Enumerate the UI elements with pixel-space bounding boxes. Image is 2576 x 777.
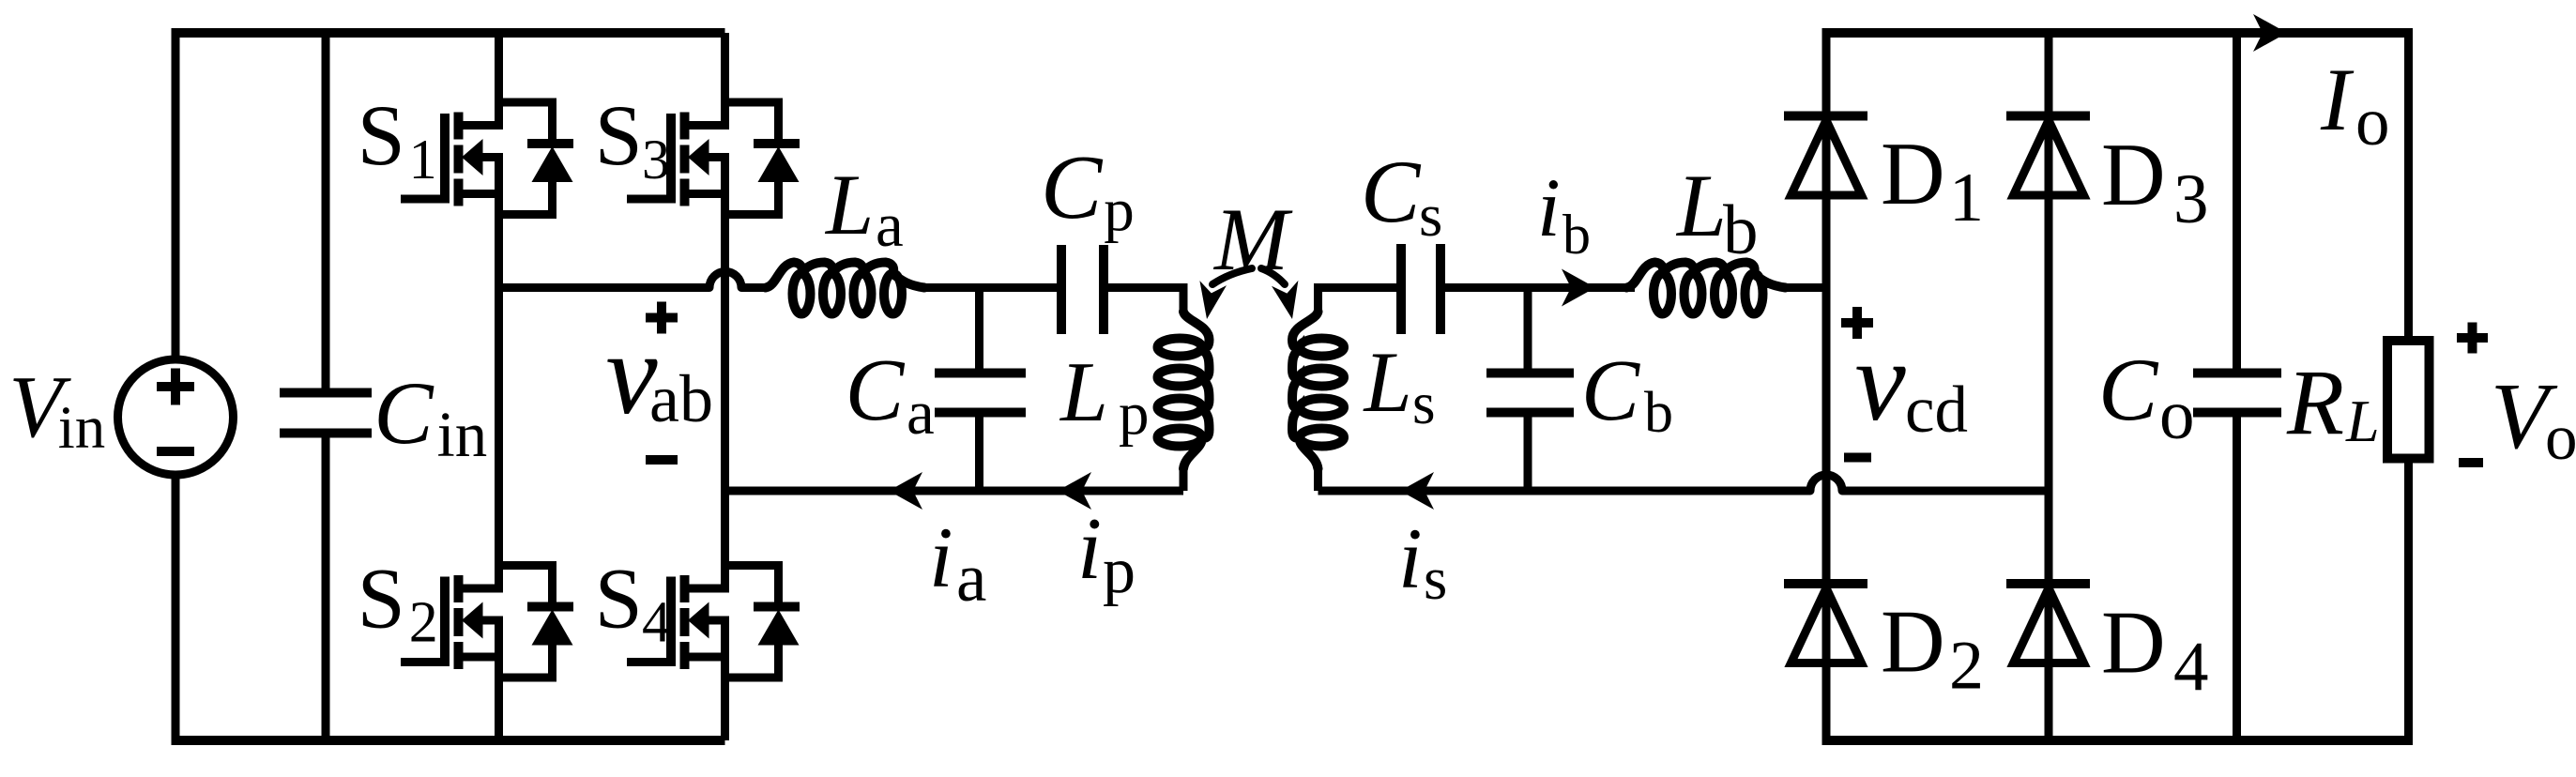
svg-text:D: D [1881, 592, 1945, 692]
svg-text:v: v [1855, 318, 1907, 445]
svg-text:C: C [1581, 343, 1640, 439]
svg-text:i: i [929, 510, 953, 605]
svg-text:C: C [1361, 142, 1422, 241]
svg-text:1: 1 [1949, 160, 1984, 236]
svg-text:a: a [907, 378, 935, 448]
svg-text:D: D [1881, 124, 1945, 223]
svg-text:cd: cd [1905, 373, 1968, 447]
svg-text:i: i [1398, 510, 1423, 606]
svg-text:D: D [2101, 125, 2166, 224]
svg-text:3: 3 [2173, 160, 2209, 238]
svg-text:2: 2 [409, 591, 438, 655]
svg-text:M: M [1212, 190, 1293, 289]
svg-text:s: s [1412, 371, 1436, 436]
svg-text:a: a [876, 190, 904, 260]
svg-text:s: s [1419, 182, 1442, 250]
svg-text:L: L [1363, 334, 1412, 430]
svg-text:s: s [1424, 545, 1447, 613]
svg-text:L: L [1059, 343, 1108, 439]
svg-text:L: L [2345, 388, 2380, 454]
svg-text:L: L [824, 157, 874, 252]
svg-text:a: a [956, 540, 986, 616]
svg-text:4: 4 [2173, 629, 2209, 707]
svg-text:p: p [1104, 176, 1135, 244]
svg-text:b: b [1723, 191, 1759, 269]
svg-text:C: C [846, 342, 906, 439]
svg-text:4: 4 [642, 591, 671, 655]
svg-text:C: C [373, 363, 434, 463]
svg-text:p: p [1103, 535, 1136, 607]
svg-text:S: S [595, 551, 643, 647]
svg-text:b: b [1562, 204, 1591, 266]
svg-text:C: C [1041, 137, 1104, 238]
svg-text:3: 3 [642, 129, 670, 190]
svg-text:p: p [1119, 380, 1150, 448]
svg-text:L: L [1675, 156, 1727, 255]
svg-text:S: S [358, 551, 405, 647]
svg-text:C: C [2098, 340, 2159, 439]
svg-text:in: in [58, 394, 106, 462]
svg-text:b: b [1644, 381, 1673, 445]
svg-text:i: i [1537, 162, 1561, 254]
svg-text:S: S [595, 87, 643, 183]
svg-text:2: 2 [1949, 628, 1984, 705]
svg-text:o: o [2355, 84, 2390, 160]
svg-text:S: S [358, 87, 405, 183]
svg-text:D: D [2101, 593, 2166, 693]
svg-text:in: in [437, 399, 488, 470]
svg-text:R: R [2286, 350, 2344, 454]
svg-text:ab: ab [649, 361, 713, 436]
svg-text:i: i [1077, 500, 1102, 598]
svg-text:I: I [2320, 50, 2355, 149]
svg-text:o: o [2159, 376, 2195, 454]
svg-text:o: o [2545, 402, 2576, 473]
svg-text:1: 1 [409, 129, 437, 190]
